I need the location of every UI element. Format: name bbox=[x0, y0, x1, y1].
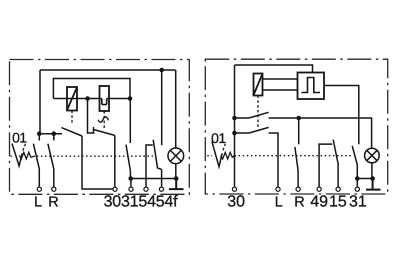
terminal 54f bbox=[159, 187, 163, 191]
node: junction upper rail / switch R drop bbox=[296, 116, 301, 121]
svg-text:1: 1 bbox=[19, 130, 27, 146]
svg-text:1: 1 bbox=[218, 130, 226, 146]
thermal element (right box with dip) bbox=[100, 86, 110, 111]
terminal L (right) bbox=[276, 187, 280, 191]
terminal 49 bbox=[317, 187, 321, 191]
switch R (turn signal right) bbox=[48, 134, 54, 187]
svg-text:R: R bbox=[48, 194, 58, 210]
mechanical linkage (dotted) right unit bbox=[207, 155, 352, 157]
node: junction L feed bbox=[37, 131, 42, 136]
wire: pulse generator output bbox=[324, 86, 359, 145]
svg-text:31: 31 bbox=[349, 193, 367, 210]
svg-text:R: R bbox=[294, 194, 304, 210]
node: junction bus / ground (right) bbox=[370, 176, 375, 181]
svg-text:30: 30 bbox=[227, 193, 245, 210]
terminal R (right) bbox=[296, 187, 300, 191]
svg-text:L: L bbox=[275, 194, 283, 210]
node: junction 30 riser / lower rail bbox=[232, 131, 237, 136]
actuator link (dashed) from relay K1 bbox=[71, 111, 73, 125]
terminal R bbox=[52, 187, 56, 191]
contact A blade to terminal 31 bbox=[126, 145, 130, 179]
node: junction bus / lamp-ground bbox=[174, 176, 179, 181]
wire: lamp bottom to bus (right) bbox=[371, 163, 373, 179]
node: junction between relay elements bbox=[85, 96, 90, 101]
terminal 54 bbox=[144, 187, 148, 191]
armature pivot bracket bbox=[88, 99, 95, 134]
terminal 30 (left) bbox=[113, 187, 117, 191]
wires: relay to pulse generator (2 links) bbox=[263, 79, 298, 90]
resistor zigzag right (flexible lead) bbox=[221, 152, 235, 159]
node: junction bus / terminal 31 bbox=[128, 176, 133, 181]
wire: left top supply rail y=69 bbox=[40, 69, 176, 71]
ground symbol (left) bbox=[169, 179, 184, 190]
hazard switch blade position 1 (dashed) bbox=[23, 144, 26, 151]
terminal 15 bbox=[336, 187, 340, 191]
wire: L/R switch feed rail bbox=[39, 133, 62, 135]
thermal squiggle bbox=[98, 117, 108, 122]
wire: top rail to pulse generator bbox=[235, 65, 313, 73]
wire: loop over relay coils bbox=[53, 79, 130, 99]
ground symbol (right) bbox=[366, 179, 381, 190]
relay coil K1 (electromagnet, left box) bbox=[67, 87, 77, 111]
wire: upper contact rail bbox=[235, 118, 372, 149]
indicator lamp (circle with X) bbox=[168, 148, 184, 164]
wire: mid rail through relay elements bbox=[53, 98, 130, 100]
terminal 31 (right) bbox=[355, 187, 359, 191]
wire: drop from top rail to contact B fixed contact bbox=[161, 70, 163, 145]
switch 49/15: terminal 49 riser and stub bbox=[319, 144, 332, 187]
node: junction bus / terminal 31 (right) bbox=[355, 176, 360, 181]
node: junction mid rail / contact A riser bbox=[128, 96, 133, 101]
wire: drop from top rail corner to indicator lamp bbox=[175, 70, 177, 148]
hazard switch blade (position 0, solid) bbox=[12, 144, 22, 167]
svg-text:49: 49 bbox=[310, 193, 328, 210]
wire: contact B to terminal 54f bbox=[161, 170, 163, 187]
earth bus (right) bbox=[357, 178, 372, 180]
wire: blade end down to terminal 30 bbox=[114, 135, 116, 186]
svg-text:15: 15 bbox=[329, 193, 347, 210]
left flasher unit boundary frame (dash-dot) bbox=[10, 60, 190, 195]
svg-text:30315454f: 30315454f bbox=[104, 193, 179, 210]
wire: lower contact rail to terminal L bbox=[235, 133, 279, 187]
pulse generator box bbox=[298, 73, 325, 100]
right flasher unit boundary frame (dash-dot) bbox=[205, 59, 387, 194]
thermal wire dip inside element bbox=[102, 99, 107, 105]
contact blade: main armature blade to terminal 30 bbox=[94, 130, 115, 136]
node: junction top rail to contact B drop bbox=[159, 68, 164, 73]
wire: bus to terminal 31 bbox=[130, 179, 132, 187]
switch 31 blade bbox=[352, 146, 357, 179]
actuator link (dashed) from relay K2 bbox=[257, 96, 259, 128]
hazard switch blade right unit (position 0) bbox=[212, 142, 222, 167]
actuator link (dashed) from thermal element bbox=[103, 111, 105, 130]
mechanical linkage (dotted) left unit bbox=[10, 155, 153, 157]
resistor zigzag (flexible lead) bbox=[19, 152, 35, 159]
wire: terminal 30 riser (right) bbox=[234, 65, 236, 187]
terminal 54 riser and fixed contact stub bbox=[146, 145, 153, 187]
contact blade lower (relay contact) bbox=[249, 127, 269, 133]
contact blade: hazard feed blade bbox=[61, 128, 82, 136]
contact B blade bbox=[153, 140, 161, 170]
contact A riser from mid rail bbox=[129, 99, 131, 144]
svg-text:L: L bbox=[34, 194, 42, 210]
switch R (right unit) bbox=[295, 118, 299, 187]
relay coil K2 (right) bbox=[254, 74, 263, 96]
switch 49/15 blade and terminal 15 riser bbox=[333, 140, 338, 187]
earth bus rail bbox=[131, 178, 177, 180]
hazard switch blade right (position 1, dashed) bbox=[223, 144, 226, 151]
node: junction R feed bbox=[52, 131, 57, 136]
indicator lamp (right) bbox=[365, 148, 380, 163]
terminal L bbox=[37, 187, 41, 191]
terminal 30 (right) bbox=[232, 187, 236, 191]
node: junction 30 riser / upper rail bbox=[232, 116, 237, 121]
wire: left vertical from top rail to L/R feed bbox=[39, 70, 41, 134]
wire: lamp bottom to bus bbox=[175, 164, 177, 179]
switch L (turn signal left) bbox=[33, 134, 39, 187]
terminal 31 (left) bbox=[129, 187, 133, 191]
contact blade upper (relay contact) bbox=[249, 112, 269, 118]
wire: bus to terminal 31 (right) bbox=[356, 179, 358, 187]
wire: hazard blade down and over to terminal 30 bbox=[82, 136, 113, 189]
square wave symbol bbox=[302, 78, 321, 93]
